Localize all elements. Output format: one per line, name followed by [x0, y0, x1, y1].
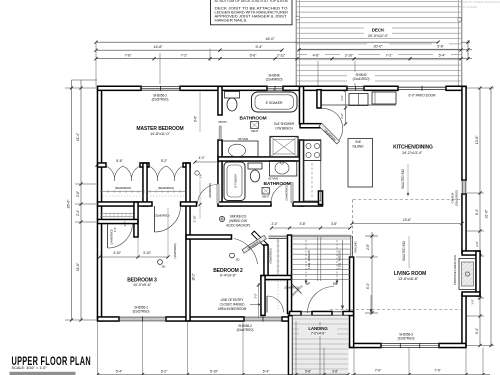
svg-text:20'-0"x12'-0": 20'-0"x12'-0": [368, 34, 389, 38]
hall south wall: [290, 311, 302, 315]
exterior wall right: [462, 86, 466, 180]
svg-text:7 EQ. RISERS: 7 EQ. RISERS: [338, 250, 342, 269]
svg-text:(30x80RSO): (30x80RSO): [208, 183, 212, 198]
svg-text:SD: SD: [162, 265, 166, 269]
svg-text:1'-4": 1'-4": [113, 227, 117, 232]
kitchen island: [348, 139, 373, 188]
bottom dims right: [323, 348, 325, 375]
deck joist note box: [211, 0, 293, 25]
svg-text:5'-4": 5'-4": [439, 53, 446, 57]
landing ptr dim: [370, 295, 372, 313]
title gray bar: [10, 372, 76, 375]
svg-text:1'-6": 1'-6": [471, 299, 475, 305]
svg-text:(50x80RSO): (50x80RSO): [158, 186, 174, 190]
svg-text:5' TUB/SH: 5' TUB/SH: [234, 174, 238, 188]
linen closet door: [107, 224, 109, 249]
svg-text:2'-10": 2'-10": [345, 53, 354, 57]
svg-text:AC/DC BACKUP): AC/DC BACKUP): [226, 224, 250, 228]
svg-text:14'-8"x11'-0": 14'-8"x11'-0": [150, 132, 170, 136]
svg-text:3'x6': 3'x6': [355, 140, 361, 144]
kitchen pantry door: [319, 123, 340, 144]
svg-text:5'-8": 5'-8": [305, 370, 312, 374]
linen closet shelves: [100, 213, 133, 215]
svg-text:2'-4": 2'-4": [76, 209, 80, 216]
svg-text:5'-6": 5'-6": [437, 44, 444, 48]
top dimension lines: [96, 41, 438, 43]
deck label halo: [364, 27, 392, 39]
stair annotations: [305, 240, 307, 284]
bedroom2 closet walls: [264, 245, 268, 279]
svg-text:7'-0": 7'-0": [375, 368, 382, 372]
kitchen west counter: [304, 140, 321, 202]
svg-text:AT BOTTOM OF DECK JOISTS AT TO: AT BOTTOM OF DECK JOISTS AT TOP & BTM.: [215, 0, 289, 3]
svg-text:10'-2": 10'-2": [192, 273, 196, 281]
master closet bifold doors: [106, 166, 123, 181]
svg-text:LINE OF ENTRY: LINE OF ENTRY: [221, 298, 245, 302]
pantry north wall: [317, 90, 321, 108]
svg-text:56"VAN: 56"VAN: [238, 137, 248, 141]
stair right dim: [371, 232, 373, 313]
bath1 soaker tub: [252, 92, 298, 112]
bottom dims left: [97, 321, 99, 375]
svg-text:7'-6": 7'-6": [125, 53, 132, 57]
deck area with decking boards: [297, 1, 461, 3]
svg-text:6'-6": 6'-6": [250, 53, 257, 57]
svg-text:9'-4"x9'-6": 9'-4"x9'-6": [220, 273, 237, 277]
svg-text:(24x80RSO): (24x80RSO): [285, 185, 289, 200]
bedroom2 door diagonal: [242, 235, 266, 253]
entry closet west wall: [261, 276, 265, 316]
landing west wall: [288, 316, 292, 375]
window SH3048 bathroom: [267, 85, 283, 87]
bedroom3 door: [154, 206, 156, 232]
svg-text:UP: UP: [306, 282, 310, 286]
svg-text:PROPANE FIREPLACE: PROPANE FIREPLACE: [453, 255, 457, 285]
hall landing door arc: [308, 287, 335, 314]
propane fireplace: [462, 251, 480, 255]
svg-text:4'-10": 4'-10": [113, 251, 122, 255]
svg-text:3'-10": 3'-10": [143, 251, 152, 255]
svg-text:5'-2": 5'-2": [161, 370, 168, 374]
stair-living wall: [350, 257, 354, 347]
svg-text:4'-0": 4'-0": [199, 156, 205, 160]
svg-text:Y: Y: [273, 88, 275, 92]
svg-text:13'-6": 13'-6": [475, 135, 479, 144]
svg-text:HANGER NAILS.: HANGER NAILS.: [215, 19, 248, 23]
svg-text:5'-4": 5'-4": [116, 370, 123, 374]
svg-text:(61x57RSO): (61x57RSO): [152, 98, 169, 102]
svg-text:5'-2": 5'-2": [161, 159, 168, 163]
patio door: [398, 86, 446, 88]
svg-text:C/W BENCH: C/W BENCH: [275, 127, 293, 131]
svg-text:6'-4": 6'-4": [366, 283, 370, 289]
stair top stub: [318, 191, 322, 205]
bath2 tub: [224, 162, 245, 201]
exterior wall left: [97, 86, 101, 321]
exterior wall bottom right: [350, 343, 381, 347]
svg-text:2'-6": 2'-6": [199, 173, 203, 178]
svg-text:2'-2": 2'-2": [340, 113, 344, 118]
bedroom3 smoke: [158, 260, 163, 265]
bath2 vanity: [270, 161, 297, 177]
svg-text:VENT: VENT: [251, 129, 259, 133]
window bedroom 2: [244, 316, 282, 318]
svg-text:(91x57RSO): (91x57RSO): [398, 336, 415, 340]
svg-text:7'-2": 7'-2": [386, 53, 393, 57]
svg-text:5' SOAKER: 5' SOAKER: [266, 101, 283, 105]
svg-text:SD: SD: [236, 258, 240, 262]
svg-text:VAULTED 3/12: VAULTED 3/12: [401, 169, 405, 189]
svg-text:3'-2": 3'-2": [253, 293, 257, 298]
stair bottom door: [293, 285, 302, 294]
svg-text:(32x80RSO): (32x80RSO): [154, 214, 169, 218]
svg-text:20'-0": 20'-0": [373, 44, 383, 48]
closet band bottom: [98, 202, 152, 206]
svg-text:44'-0": 44'-0": [265, 37, 275, 41]
stair treads: [291, 238, 350, 240]
svg-text:42"VAN: 42"VAN: [268, 177, 278, 181]
svg-text:3'-8": 3'-8": [331, 222, 338, 226]
svg-text:31'-0": 31'-0": [485, 209, 489, 219]
pantry dim: [345, 90, 347, 124]
landing top edge: [293, 317, 349, 319]
svg-text:VENT: VENT: [262, 195, 270, 199]
right dimension lines: [479, 88, 481, 346]
bath1 vent: [251, 122, 259, 129]
svg-text:(25x26RSO): (25x26RSO): [455, 190, 459, 206]
svg-text:6'-4": 6'-4": [475, 327, 479, 334]
hall circle symbol: [195, 171, 199, 175]
bedroom2 smoke: [230, 253, 235, 258]
living width dim: [352, 223, 462, 225]
wall kitchen west lower: [299, 140, 303, 206]
closet front wall: [98, 163, 106, 167]
vault dash kitchen: [353, 199, 462, 201]
svg-text:(31x41RSO): (31x41RSO): [353, 77, 370, 81]
svg-text:(61x57RSO): (61x57RSO): [237, 328, 254, 332]
wall master-bath pocket: [218, 86, 222, 115]
svg-text:9'-4": 9'-4": [255, 45, 263, 49]
svg-text:10'-0"x9'-6": 10'-0"x9'-6": [133, 283, 152, 287]
svg-text:CLOSET, RAISED: CLOSET, RAISED: [220, 303, 245, 307]
svg-text:2'-0": 2'-0": [475, 241, 479, 247]
svg-text:LANDING: LANDING: [308, 326, 328, 331]
pocket door panel: [219, 126, 221, 140]
svg-text:6'-8": 6'-8": [194, 116, 198, 122]
left dimension lines: [71, 80, 73, 320]
vault dash living: [330, 309, 462, 311]
exterior wall bottom bedrooms: [98, 317, 119, 321]
svg-text:SMOKE/CO: SMOKE/CO: [230, 215, 247, 219]
bath2 door: [291, 183, 293, 203]
svg-text:13'-6"x16'-8": 13'-6"x16'-8": [398, 277, 419, 281]
window SH3056-3 living: [381, 343, 439, 345]
svg-text:(61x57RSO): (61x57RSO): [133, 310, 150, 314]
svg-text:2'-6": 2'-6": [76, 190, 80, 197]
svg-text:(50x80RSO): (50x80RSO): [115, 186, 131, 190]
window SH3056-2 master: [141, 85, 180, 87]
exterior wall top: [98, 86, 141, 90]
svg-text:2'-6": 2'-6": [366, 244, 370, 250]
svg-text:KITCHEN/DINING: KITCHEN/DINING: [393, 145, 433, 151]
landing hatch: [293, 316, 349, 375]
wall kitchen west upper: [299, 86, 303, 124]
bath1 toilet: [225, 92, 240, 99]
svg-text:1'-10": 1'-10": [193, 216, 197, 223]
svg-text:BATHROOM: BATHROOM: [239, 116, 266, 122]
svg-text:5'-4": 5'-4": [263, 370, 270, 374]
svg-text:7'-0"x4'-0": 7'-0"x4'-0": [311, 331, 326, 335]
svg-text:5'-10": 5'-10": [210, 370, 219, 374]
svg-text:6'-0" PATIO DOOR: 6'-0" PATIO DOOR: [409, 94, 437, 98]
svg-text:(31x49RSO): (31x49RSO): [266, 78, 283, 82]
bedroom2 diagonal wall: [252, 231, 268, 247]
smoke detector hall: [219, 216, 224, 221]
linen closet walls: [134, 202, 138, 237]
window CM3024 right wall: [461, 180, 463, 194]
bedroom3 dims: [100, 256, 169, 258]
svg-text:4'-6": 4'-6": [313, 53, 320, 57]
window bedroom 3: [119, 316, 166, 318]
stair railing: [350, 236, 352, 257]
stair direction line: [342, 240, 344, 308]
svg-text:2'-4": 2'-4": [271, 222, 278, 226]
svg-text:3'-8": 3'-8": [332, 370, 339, 374]
master dim 6-8: [199, 91, 201, 133]
bedroom2 closet rod: [277, 239, 279, 276]
svg-text:2'-11": 2'-11": [277, 53, 286, 57]
bedroom2 north wall: [186, 235, 231, 239]
svg-text:(50x80RSO): (50x80RSO): [269, 248, 273, 263]
entry dim line: [258, 283, 260, 318]
svg-text:2'-6": 2'-6": [340, 95, 344, 100]
svg-text:(WIRED C/W: (WIRED C/W: [229, 219, 247, 223]
deck post circles: [296, 16, 300, 20]
svg-text:AREA IN BEDROOM: AREA IN BEDROOM: [218, 307, 247, 311]
closet dividers: [143, 163, 147, 206]
svg-text:DECK: DECK: [372, 28, 385, 33]
wall bath1-bath2: [218, 157, 301, 161]
svg-text:7 EQ. RISERS: 7 EQ. RISERS: [307, 250, 311, 269]
svg-text:11'-4": 11'-4": [76, 132, 80, 141]
svg-text:BC CANADA: BC CANADA: [462, 5, 478, 9]
svg-text:36"PO: 36"PO: [218, 120, 227, 124]
kitchen north counter: [322, 104, 396, 106]
pantry south wall: [300, 124, 321, 128]
svg-text:19'-2"x13'-4": 19'-2"x13'-4": [402, 151, 423, 155]
bath2 south wall: [218, 202, 271, 206]
svg-text:7'-0": 7'-0": [434, 368, 441, 372]
svg-text:3'-8": 3'-8": [299, 222, 306, 226]
bath2 vent: [262, 188, 270, 195]
svg-text:DRAWN BY HOMEPLAN DESIGN LTD.: DRAWN BY HOMEPLAN DESIGN LTD.: [458, 0, 500, 4]
landing label: [299, 325, 337, 336]
stair dim row: [272, 227, 351, 229]
master closet rods: [100, 191, 143, 193]
svg-text:3'x3' SHOWER: 3'x3' SHOWER: [274, 122, 295, 126]
bath1 shower: [270, 137, 298, 158]
bedroom2 closet doors: [269, 235, 288, 237]
svg-text:14'-8": 14'-8": [153, 45, 163, 49]
kitchen stove: [304, 141, 321, 161]
svg-text:7'-2": 7'-2": [181, 53, 188, 57]
svg-text:RAILING: RAILING: [354, 241, 358, 253]
svg-text:13'-6": 13'-6": [403, 218, 412, 222]
svg-text:SCALE: 3/16" = 1'-0": SCALE: 3/16" = 1'-0": [12, 365, 48, 370]
label window kitchen halo: [347, 72, 375, 83]
label window bath halo: [261, 71, 288, 82]
entry closet interior: [265, 280, 288, 282]
svg-text:(36x80RSO): (36x80RSO): [173, 243, 177, 258]
svg-text:VAULTED 3/12: VAULTED 3/12: [402, 241, 406, 261]
window hall small: [302, 311, 312, 313]
dimension extension lines top: [95, 42, 97, 86]
svg-text:5'-6": 5'-6": [116, 159, 123, 163]
svg-text:6'-4": 6'-4": [475, 208, 479, 215]
deck corner dim line: [467, 40, 469, 60]
bath1 vanity: [223, 141, 259, 157]
svg-text:1'-6": 1'-6": [123, 221, 127, 226]
hall door: [217, 184, 219, 204]
svg-text:11'-6": 11'-6": [76, 262, 80, 271]
svg-text:ISLAND: ISLAND: [353, 144, 365, 148]
bath2 toilet: [248, 163, 262, 169]
svg-text:26'-0": 26'-0": [67, 199, 71, 209]
window SH3040 kitchen: [347, 85, 364, 87]
